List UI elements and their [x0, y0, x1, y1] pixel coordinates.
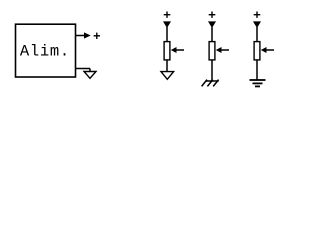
- svg-text:Alim.: Alim.: [20, 43, 70, 61]
